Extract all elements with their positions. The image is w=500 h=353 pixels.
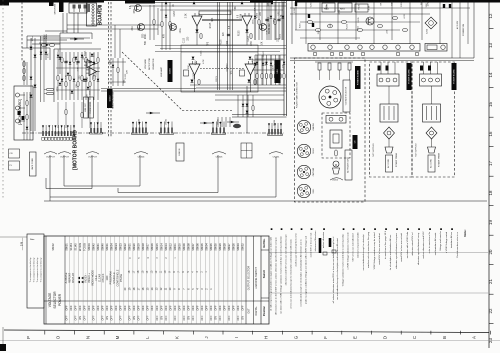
svg-text:S8006: S8006 xyxy=(195,243,199,251)
svg-text:TC003: TC003 xyxy=(82,243,86,251)
svg-text:S8010: S8010 xyxy=(177,243,181,251)
svg-text:C115: C115 xyxy=(184,37,186,43)
svg-text:IC50: IC50 xyxy=(195,60,197,65)
svg-text:a VOM Voltage variations may b: a VOM Voltage variations may be note xyxy=(347,232,350,270)
svg-text:OFF: OFF xyxy=(100,305,104,311)
svg-text:O: O xyxy=(56,335,61,339)
svg-text:LOADING: LOADING xyxy=(312,122,315,131)
svg-text:1/2W: 1/2W xyxy=(240,13,242,19)
svg-text:for electrolytics and tantalum: for electrolytics and tantalums All res xyxy=(389,234,392,270)
svg-text:S8007: S8007 xyxy=(191,243,195,251)
svg-text:3.3K: 3.3K xyxy=(266,30,268,35)
svg-text:2SC: 2SC xyxy=(265,61,267,66)
svg-text:Switch: Switch xyxy=(262,269,266,278)
svg-text:C203: C203 xyxy=(426,28,428,34)
svg-text:OFF: OFF xyxy=(201,315,204,320)
svg-text:N: N xyxy=(85,336,90,339)
svg-text:dc with respect to ground unde: dc with respect to ground under no-signa… xyxy=(270,236,273,311)
svg-text:OFF: OFF xyxy=(173,305,177,311)
svg-text:20: 20 xyxy=(488,249,493,254)
svg-text:OFF: OFF xyxy=(74,315,77,320)
svg-text:OFF: OFF xyxy=(210,315,213,320)
svg-text:OFF: OFF xyxy=(147,315,150,320)
svg-text:R221: R221 xyxy=(145,33,147,39)
svg-text:R105: R105 xyxy=(326,4,328,10)
svg-text:VOLTAGE: VOLTAGE xyxy=(48,293,52,308)
svg-text:19: 19 xyxy=(488,220,493,225)
svg-text:Circled numbers refer to w: Circled numbers refer to w xyxy=(456,232,459,258)
svg-text:CHECK: CHECK xyxy=(102,273,105,282)
svg-text:S8033: S8033 xyxy=(236,243,240,251)
svg-text:D50: D50 xyxy=(134,8,136,13)
svg-text:OUT: OUT xyxy=(248,308,251,314)
svg-text:W7009: W7009 xyxy=(78,242,82,251)
svg-text:ON: ON xyxy=(160,316,163,320)
svg-text:R221: R221 xyxy=(347,23,349,29)
svg-text:ON: ON xyxy=(187,316,190,320)
svg-text:IC50: IC50 xyxy=(339,9,341,14)
svg-text:noted 50V or less are not indi: noted 50V or less are not indi xyxy=(400,233,403,262)
svg-text:50V or less are not indicated: 50V or less are not indicated xyxy=(352,233,355,262)
svg-text:OUTPUT SELECTOR: OUTPUT SELECTOR xyxy=(248,266,251,291)
svg-text:56K: 56K xyxy=(188,65,190,69)
svg-text:S8032: S8032 xyxy=(241,243,245,251)
svg-text:R221: R221 xyxy=(85,50,87,56)
svg-text:S8040: S8040 xyxy=(100,243,104,251)
svg-text:are not indicated except for e: are not indicated except for electrolyti… xyxy=(336,238,339,300)
svg-text:unless otherwise noted 50V: unless otherwise noted 50V xyxy=(422,231,425,258)
svg-text:S8034: S8034 xyxy=(110,243,114,251)
svg-text:C: C xyxy=(412,336,417,339)
svg-text:S8024: S8024 xyxy=(114,243,118,251)
svg-text:56K: 56K xyxy=(426,3,428,7)
svg-text:The components identified by: The components identified by xyxy=(29,258,32,283)
svg-text:OFF: OFF xyxy=(232,305,236,311)
svg-text:are taken with a VOM Volta: are taken with a VOM Volta xyxy=(406,231,409,258)
svg-text:56K: 56K xyxy=(145,40,147,45)
svg-text:or less are not indicated exce: or less are not indicated except for ele… xyxy=(290,238,293,309)
svg-text:LOADING SWITCH: LOADING SWITCH xyxy=(255,267,258,289)
svg-text:15: 15 xyxy=(488,102,493,107)
svg-text:The components identified by: The components identified by xyxy=(33,258,36,283)
svg-text:S8008: S8008 xyxy=(186,243,190,251)
svg-text:S8041: S8041 xyxy=(96,243,100,251)
svg-text:Ref No.: Ref No. xyxy=(262,238,266,247)
svg-text:3.3K: 3.3K xyxy=(77,67,79,72)
svg-text:R221: R221 xyxy=(421,0,423,5)
svg-text:otherwise specified internal c: otherwise specified internal comp xyxy=(417,232,420,265)
svg-text:are not indicated except for e: are not indicated except for electrolyt xyxy=(362,234,365,270)
svg-text:17: 17 xyxy=(488,161,493,166)
svg-text:Voltage variations may be note: Voltage variations may be noted due to n… xyxy=(342,233,345,286)
svg-text:OFF: OFF xyxy=(73,305,77,311)
svg-text:4.7K: 4.7K xyxy=(203,59,205,64)
svg-text:S8016: S8016 xyxy=(150,243,154,251)
svg-text:OFF: OFF xyxy=(120,315,123,320)
svg-text:S8023: S8023 xyxy=(119,243,123,251)
svg-text:POWER BOARD: POWER BOARD xyxy=(356,69,359,85)
svg-text:OFF: OFF xyxy=(209,305,213,311)
svg-text:OFF: OFF xyxy=(183,315,186,320)
svg-text:TP5: TP5 xyxy=(207,41,209,46)
svg-text:12: 12 xyxy=(488,13,493,18)
svg-text:VOLTAGE SELECTOR: VOLTAGE SELECTOR xyxy=(345,86,348,105)
svg-text:C115: C115 xyxy=(268,16,270,22)
svg-text:OFF: OFF xyxy=(150,305,154,311)
svg-text:10K: 10K xyxy=(262,41,264,46)
svg-text:S8012: S8012 xyxy=(168,243,172,251)
svg-text:ON: ON xyxy=(106,316,109,320)
svg-text:D5060: D5060 xyxy=(170,68,172,74)
svg-text:OFF: OFF xyxy=(228,315,231,320)
svg-text:S8011: S8011 xyxy=(173,243,177,251)
svg-text:CN306: CN306 xyxy=(274,120,276,126)
svg-text:3.3K: 3.3K xyxy=(185,13,187,18)
svg-text:oscilloscope Circled numbers r: oscilloscope Circled numbers refer xyxy=(295,233,298,267)
svg-text:S8018: S8018 xyxy=(141,243,145,251)
svg-text:ON: ON xyxy=(133,316,136,320)
svg-text:AC 120V: AC 120V xyxy=(456,20,459,29)
svg-text:E: E xyxy=(353,336,358,339)
svg-text:2SC: 2SC xyxy=(87,76,89,81)
svg-text:R105: R105 xyxy=(256,12,258,18)
svg-text:1K: 1K xyxy=(173,4,175,7)
svg-text:DETECTOR: DETECTOR xyxy=(149,58,151,70)
svg-text:noted 50V or less are not: noted 50V or less are not xyxy=(310,232,313,257)
svg-text:R105: R105 xyxy=(220,39,222,45)
svg-text:OFF: OFF xyxy=(69,305,73,311)
svg-text:S8013: S8013 xyxy=(164,243,168,251)
svg-text:0.022: 0.022 xyxy=(193,72,195,78)
svg-text:47K: 47K xyxy=(283,64,285,68)
svg-text:under no-signal conditions Vol: under no-signal conditions Voltages are … xyxy=(305,235,308,304)
svg-text:S8035: S8035 xyxy=(209,243,213,251)
svg-text:100u: 100u xyxy=(180,28,182,34)
svg-text:S8009: S8009 xyxy=(182,243,186,251)
svg-text:OFF: OFF xyxy=(83,315,86,320)
svg-text:S8017: S8017 xyxy=(146,243,150,251)
svg-text:tantalums All res: tantalums All res xyxy=(450,231,453,248)
svg-text:otherwise noted 50V or less ar: otherwise noted 50V or less are not indi… xyxy=(285,234,288,285)
svg-text:C203: C203 xyxy=(311,1,313,7)
svg-text:HEADPHONE AMP: HEADPHONE AMP xyxy=(112,90,115,109)
svg-text:POWER TRANS CONNECTION: POWER TRANS CONNECTION xyxy=(296,81,299,108)
svg-text:D: D xyxy=(382,336,387,339)
svg-text:4.7K: 4.7K xyxy=(404,14,406,19)
svg-text:OFF: OFF xyxy=(214,305,218,311)
svg-text:2SC: 2SC xyxy=(318,30,320,35)
svg-text:uF unless otherwise noted 50V: uF unless otherwise noted 50V or less ar… xyxy=(332,236,335,303)
svg-text:S8002: S8002 xyxy=(52,243,55,251)
svg-text:S8003: S8003 xyxy=(87,243,91,251)
svg-text:4.7K: 4.7K xyxy=(47,53,49,58)
svg-text:IC50: IC50 xyxy=(251,40,253,46)
svg-text:G: G xyxy=(293,335,298,339)
svg-text:C115: C115 xyxy=(200,50,202,56)
svg-text:POWER TRANS: POWER TRANS xyxy=(438,152,441,167)
svg-text:AC CORD: AC CORD xyxy=(430,159,433,168)
svg-text:a VOM Voltage variati: a VOM Voltage variati xyxy=(445,231,448,253)
svg-text:OFF: OFF xyxy=(219,315,222,320)
svg-text:POWER TRANS: POWER TRANS xyxy=(395,152,398,167)
svg-text:Note:: Note: xyxy=(463,229,467,236)
svg-text:ON: ON xyxy=(215,316,218,320)
svg-text:CN451: CN451 xyxy=(273,156,281,158)
svg-text:LINE OUT: LINE OUT xyxy=(85,102,87,112)
svg-text:S8026: S8026 xyxy=(232,243,236,251)
svg-text:OFF: OFF xyxy=(129,315,132,320)
svg-text:OFF: OFF xyxy=(164,305,168,311)
svg-text:INVERTER: INVERTER xyxy=(153,58,155,69)
svg-text:OFF: OFF xyxy=(92,315,95,320)
svg-text:S8019: S8019 xyxy=(137,243,141,251)
svg-text:OFF: OFF xyxy=(141,305,145,311)
svg-text:47K: 47K xyxy=(163,33,165,38)
svg-text:LINE AMP: LINE AMP xyxy=(160,66,163,77)
svg-text:OFF: OFF xyxy=(223,305,227,311)
svg-text:S8004: S8004 xyxy=(205,243,209,251)
svg-text:CN304: CN304 xyxy=(138,156,146,158)
svg-text:CAPSTAN: CAPSTAN xyxy=(312,167,315,176)
svg-text:DR DRIVE: DR DRIVE xyxy=(55,3,57,14)
svg-text:—19—: —19— xyxy=(19,238,24,250)
svg-text:OFF: OFF xyxy=(105,305,109,311)
svg-text:S8022: S8022 xyxy=(123,243,127,251)
svg-text:NOT SUPPLIED: NOT SUPPLIED xyxy=(416,143,418,157)
svg-text:tolerances Waveform: tolerances Waveform xyxy=(314,231,317,252)
svg-text:OFF: OFF xyxy=(110,305,114,311)
svg-text:P: P xyxy=(26,336,31,339)
svg-text:unless otherwise: unless otherwise xyxy=(322,231,325,248)
svg-text:VOM Voltage variations may be: VOM Voltage variations may be noted xyxy=(373,232,376,270)
svg-text:VR1: VR1 xyxy=(138,26,140,31)
svg-text:OFF: OFF xyxy=(114,305,118,311)
svg-text:2SC: 2SC xyxy=(132,26,134,31)
svg-text:21: 21 xyxy=(488,279,493,284)
svg-text:OFF: OFF xyxy=(78,305,82,311)
svg-text:R105: R105 xyxy=(239,30,241,36)
svg-text:OFF: OFF xyxy=(96,305,100,311)
svg-text:13: 13 xyxy=(488,43,493,48)
svg-text:23: 23 xyxy=(488,338,493,343)
svg-text:OUTPUT: OUTPUT xyxy=(46,156,56,158)
svg-text:F: F xyxy=(323,336,328,339)
svg-text:S8029: S8029 xyxy=(218,243,222,251)
svg-text:OFF: OFF xyxy=(156,315,159,320)
svg-text:2SC: 2SC xyxy=(94,52,96,57)
svg-text:to waveforms See page 18 S: to waveforms See page 18 S xyxy=(384,230,387,259)
svg-text:IC50: IC50 xyxy=(299,23,301,28)
svg-text:22: 22 xyxy=(488,308,493,313)
svg-text:4.7K: 4.7K xyxy=(368,5,370,10)
svg-text:otherwise noted 50V or l: otherwise noted 50V or l xyxy=(411,232,414,256)
svg-text:OFF: OFF xyxy=(123,305,127,311)
svg-text:R105: R105 xyxy=(93,73,95,79)
svg-text:OUTPUT: OUTPUT xyxy=(88,156,98,158)
svg-text:OFF: OFF xyxy=(227,305,231,311)
svg-text:and tantalums All resist: and tantalums All resist xyxy=(434,232,437,255)
svg-text:OFF: OFF xyxy=(138,315,141,320)
svg-text:OFF: OFF xyxy=(91,305,95,311)
svg-text:R221: R221 xyxy=(216,76,218,82)
svg-text:numbers refer to waveforms See: numbers refer to waveforms See pag xyxy=(367,231,370,268)
svg-text:OFF: OFF xyxy=(165,315,168,320)
svg-text:S1154: S1154 xyxy=(69,243,73,251)
svg-text:S8015: S8015 xyxy=(155,243,159,251)
svg-text:OFF: OFF xyxy=(200,305,204,311)
svg-text:18: 18 xyxy=(488,190,493,195)
svg-text:OFF: OFF xyxy=(155,305,159,311)
svg-text:D5020: D5020 xyxy=(109,96,111,102)
svg-text:R221: R221 xyxy=(95,70,97,76)
svg-text:DRUM: DRUM xyxy=(313,148,315,154)
svg-text:S8027: S8027 xyxy=(227,243,231,251)
svg-text:POWER BOARD: POWER BOARD xyxy=(408,69,411,84)
svg-text:POWER: POWER xyxy=(58,293,62,306)
svg-text:Voltage and wavefor: Voltage and wavefor xyxy=(439,231,442,251)
svg-text:AC POWER CORD: AC POWER CORD xyxy=(347,157,350,173)
svg-text:J: J xyxy=(204,336,209,338)
svg-text:[MOTOR BOARD: [MOTOR BOARD xyxy=(73,130,79,170)
svg-text:CN 302: CN 302 xyxy=(98,5,100,13)
svg-text:47K: 47K xyxy=(273,65,275,69)
svg-text:CN302: CN302 xyxy=(166,119,168,125)
svg-text:R221: R221 xyxy=(280,33,282,39)
svg-text:S8020: S8020 xyxy=(132,243,136,251)
svg-text:OFF: OFF xyxy=(205,305,209,311)
svg-text:OFF: OFF xyxy=(195,305,199,311)
svg-text:OFF: OFF xyxy=(82,305,86,311)
svg-text:R105: R105 xyxy=(359,3,361,9)
svg-text:100u: 100u xyxy=(253,19,255,25)
svg-text:OFF: OFF xyxy=(191,305,195,311)
svg-text:VOLTAGE: VOLTAGE xyxy=(144,58,147,69)
svg-text:B: B xyxy=(442,336,447,339)
svg-text:M: M xyxy=(335,164,337,167)
svg-text:OFF: OFF xyxy=(159,305,163,311)
svg-text:ON: ON xyxy=(79,316,82,320)
svg-text:0.022: 0.022 xyxy=(125,73,127,79)
svg-text:100u: 100u xyxy=(32,36,34,42)
svg-text:47K: 47K xyxy=(212,17,214,22)
svg-text:The components identified by: The components identified by xyxy=(40,258,43,283)
svg-text:OFF: OFF xyxy=(168,305,172,311)
svg-text:47K: 47K xyxy=(171,26,173,31)
svg-text:S8021: S8021 xyxy=(128,243,132,251)
svg-text:56K: 56K xyxy=(330,23,332,27)
svg-text:CN305: CN305 xyxy=(216,156,224,158)
svg-text:56K: 56K xyxy=(235,6,237,11)
svg-text:OUTPUT: OUTPUT xyxy=(60,156,70,158)
svg-text:0.022: 0.022 xyxy=(269,23,271,29)
svg-text:H: H xyxy=(264,336,269,339)
svg-text:DISPLAY: DISPLAY xyxy=(72,272,75,283)
svg-text:OFF: OFF xyxy=(87,305,91,311)
svg-text:CN250: CN250 xyxy=(332,180,338,182)
svg-text:SELECTOR: SELECTOR xyxy=(53,291,57,309)
svg-text:JACK CORD: JACK CORD xyxy=(31,158,34,170)
svg-text:refer to waveforms Se: refer to waveforms Se xyxy=(428,231,431,253)
svg-text:S1145: S1145 xyxy=(73,243,77,251)
svg-text:C203: C203 xyxy=(174,10,176,16)
svg-text:OFF: OFF xyxy=(236,305,240,311)
svg-text:OFF: OFF xyxy=(101,315,104,320)
svg-text:otherwise specified internal c: otherwise specified internal compone xyxy=(395,232,398,269)
svg-text:S8014: S8014 xyxy=(159,243,163,251)
svg-text:OFF: OFF xyxy=(65,315,68,320)
svg-text:PHONE LEVEL: PHONE LEVEL xyxy=(90,101,92,113)
svg-text:K: K xyxy=(175,336,180,339)
svg-text:OFF: OFF xyxy=(192,315,195,320)
svg-text:OFF: OFF xyxy=(241,305,245,311)
svg-text:are taken with a VOM Voltage v: are taken with a VOM Voltage variations … xyxy=(280,235,283,313)
svg-text:OFF: OFF xyxy=(128,305,132,311)
svg-text:OFF: OFF xyxy=(237,315,240,320)
svg-text:S8042: S8042 xyxy=(91,243,95,251)
svg-text:ON: ON xyxy=(242,316,245,320)
svg-text:DIGITAL: DIGITAL xyxy=(255,306,258,316)
svg-text:OFF: OFF xyxy=(111,315,114,320)
svg-text:OFF: OFF xyxy=(174,315,177,320)
svg-text:10K: 10K xyxy=(252,57,254,61)
svg-text:S8030: S8030 xyxy=(214,243,218,251)
svg-text:S8051: S8051 xyxy=(64,243,68,251)
svg-text:noted 50V or less are not indi: noted 50V or less are not indicat xyxy=(378,233,381,265)
svg-text:S8031: S8031 xyxy=(105,243,109,251)
svg-text:OFF: OFF xyxy=(137,305,141,311)
svg-text:C203: C203 xyxy=(248,35,250,41)
svg-text:The components identified by: The components identified by xyxy=(36,258,39,283)
svg-text:All resistors are in ohm 1/4W: All resistors are in ohm 1/4W or less un… xyxy=(275,237,278,315)
svg-text:R105: R105 xyxy=(210,22,212,28)
svg-text:CN303: CN303 xyxy=(139,119,141,125)
svg-text:PHASE: PHASE xyxy=(120,273,123,282)
svg-text:OFF: OFF xyxy=(186,305,190,311)
svg-text:Note:: Note: xyxy=(30,238,35,241)
svg-text:internal component fusible: internal component fusible xyxy=(357,231,360,257)
svg-text:POWER BOARD: POWER BOARD xyxy=(453,69,456,84)
svg-text:OFF: OFF xyxy=(146,305,150,311)
svg-text:LINE IN: LINE IN xyxy=(179,148,181,156)
svg-text:10K: 10K xyxy=(175,25,177,30)
svg-text:3.3K: 3.3K xyxy=(65,74,67,79)
svg-text:REEL: REEL xyxy=(313,189,315,194)
svg-text:CN301: CN301 xyxy=(218,119,220,125)
svg-text:M: M xyxy=(115,335,120,339)
svg-text:I: I xyxy=(234,337,239,338)
svg-text:AC CORD: AC CORD xyxy=(387,159,390,168)
svg-text:OFF: OFF xyxy=(64,305,68,311)
svg-text:S8005: S8005 xyxy=(200,243,204,251)
svg-text:14: 14 xyxy=(488,72,493,77)
svg-text:1/2W: 1/2W xyxy=(227,40,229,46)
svg-text:OFF: OFF xyxy=(218,305,222,311)
svg-text:OFF: OFF xyxy=(177,305,181,311)
svg-text:S8028: S8028 xyxy=(223,243,227,251)
svg-text:47K: 47K xyxy=(126,69,128,73)
svg-text:OFF: OFF xyxy=(132,305,136,311)
svg-text:NOT SUPPLIED: NOT SUPPLIED xyxy=(373,143,375,157)
svg-text:Position: Position xyxy=(262,305,266,316)
svg-text:A: A xyxy=(472,336,477,339)
svg-text:OFF: OFF xyxy=(119,305,123,311)
svg-text:R105: R105 xyxy=(358,17,360,23)
svg-text:VR1: VR1 xyxy=(278,10,280,15)
svg-text:16: 16 xyxy=(488,131,493,136)
svg-text:not indicated except for elect: not indicated except for electrolytics a… xyxy=(300,239,303,307)
svg-text:POWER SW: POWER SW xyxy=(463,24,465,36)
svg-text:OFF: OFF xyxy=(182,305,186,311)
